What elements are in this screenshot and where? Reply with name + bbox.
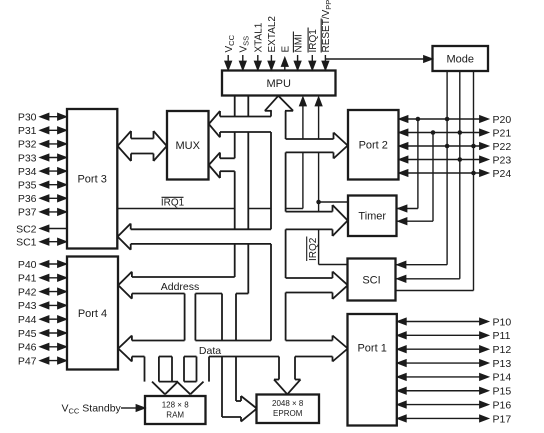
pin VCC with down arrow into MPU xyxy=(224,34,236,70)
SCI box xyxy=(348,259,396,301)
svg-text:IRQ1: IRQ1 xyxy=(161,198,185,209)
svg-text:P15: P15 xyxy=(493,386,512,398)
bus address channel into Port 4 xyxy=(118,272,248,299)
bus double arrow Port 3 to MUX xyxy=(118,131,167,161)
bus vertical channel V1 MPU to address bus xyxy=(235,96,249,294)
Port 4 box xyxy=(67,257,118,370)
node junction dots on port 2 pin lines xyxy=(416,117,476,176)
label IRQ2 rotated with overline xyxy=(307,237,319,262)
svg-text:P34: P34 xyxy=(18,166,37,178)
pin IRQ1 with overline and down arrow into MPU xyxy=(308,28,319,71)
RAM box 128x8 xyxy=(145,396,206,424)
bus arrow into MUX lower (H3) xyxy=(209,153,235,179)
svg-text:Address: Address xyxy=(161,281,200,293)
label IRQ1 with overline xyxy=(161,197,185,208)
svg-text:P20: P20 xyxy=(493,114,512,126)
svg-text:Port 3: Port 3 xyxy=(77,174,106,186)
pin VSS with down arrow into MPU xyxy=(239,36,251,71)
svg-text:Port 1: Port 1 xyxy=(357,343,386,355)
svg-text:Mode: Mode xyxy=(446,53,474,65)
node junction dot on IRQ2 line xyxy=(316,200,321,205)
svg-text:P12: P12 xyxy=(493,344,512,356)
svg-text:P47: P47 xyxy=(18,355,37,367)
wire P20 to Timer input xyxy=(398,119,418,212)
svg-text:P40: P40 xyxy=(18,259,37,271)
wire IRQ2 internal line MPU/Timer/SCI xyxy=(315,97,348,265)
svg-text:SCI: SCI xyxy=(362,274,380,286)
MUX box xyxy=(167,111,209,180)
svg-text:P14: P14 xyxy=(493,372,512,384)
bus channel V5 address bus down to EPROM side arrow xyxy=(222,294,236,418)
bus white fills xyxy=(118,96,348,422)
svg-text:NMI: NMI xyxy=(293,34,304,52)
Mode box xyxy=(433,46,489,71)
bus arrows data to RAM xyxy=(145,357,210,395)
svg-text:P21: P21 xyxy=(493,127,512,139)
pin VCC Standby into RAM xyxy=(62,403,146,416)
svg-text:P35: P35 xyxy=(18,180,37,192)
svg-text:P42: P42 xyxy=(18,286,37,298)
wire IRQ1 internal line from Port 3 to MPU xyxy=(117,97,306,209)
bus arrow into Timer xyxy=(286,205,348,236)
EPROM box 2048x8 xyxy=(257,395,320,424)
svg-text:P23: P23 xyxy=(493,154,512,166)
pin RESET/VPP with overline and down arrow into MPU xyxy=(321,0,333,71)
svg-text:P16: P16 xyxy=(493,399,512,411)
svg-text:MPU: MPU xyxy=(267,78,292,90)
svg-text:P10: P10 xyxy=(493,316,512,328)
pin XTAL1 with down arrow into MPU xyxy=(254,22,265,70)
Port 1 box xyxy=(348,314,397,426)
svg-text:P11: P11 xyxy=(493,330,511,342)
svg-text:EPROM: EPROM xyxy=(273,409,303,418)
bus arrow into SCI xyxy=(286,272,348,300)
svg-text:P31: P31 xyxy=(18,125,37,137)
svg-text:IRQ1: IRQ1 xyxy=(308,29,319,53)
svg-text:P37: P37 xyxy=(18,207,37,219)
Port 2 box xyxy=(348,110,399,180)
U1 MPU box xyxy=(222,71,336,96)
pin NMI with overline and down arrow into MPU xyxy=(293,32,304,71)
wire Mode/P22/P24 to SCI xyxy=(396,71,474,291)
svg-text:P46: P46 xyxy=(18,342,37,354)
svg-text:XTAL1: XTAL1 xyxy=(254,22,265,52)
svg-text:P32: P32 xyxy=(18,139,37,151)
bus arrow into Port 3 right side xyxy=(118,224,271,250)
bus arrow data down to EPROM xyxy=(274,357,301,395)
svg-text:P13: P13 xyxy=(493,358,512,370)
svg-text:Port 4: Port 4 xyxy=(78,308,107,320)
svg-text:P17: P17 xyxy=(493,413,512,425)
pin EXTAL2 with down arrow into MPU xyxy=(267,16,278,71)
svg-text:P45: P45 xyxy=(18,328,37,340)
svg-text:Timer: Timer xyxy=(358,211,386,223)
bus data channel Port 4 to Port 1 xyxy=(118,336,348,362)
svg-text:P41: P41 xyxy=(18,273,37,285)
svg-text:Port 2: Port 2 xyxy=(359,140,388,152)
wire P21 to Timer output xyxy=(398,133,434,225)
svg-text:2048 × 8: 2048 × 8 xyxy=(272,399,304,408)
svg-text:128 × 8: 128 × 8 xyxy=(162,401,189,410)
bus vertical channel V2 with up arrow into MPU xyxy=(265,96,293,341)
bus arrow into Port 2 (H2) xyxy=(286,133,348,159)
svg-text:IRQ2: IRQ2 xyxy=(308,237,319,261)
wire RESET line to Mode box xyxy=(325,55,433,62)
pin E clock output up arrow xyxy=(281,46,292,71)
svg-text:P24: P24 xyxy=(493,168,512,180)
svg-text:SC1: SC1 xyxy=(16,237,37,249)
svg-text:SC2: SC2 xyxy=(16,223,37,235)
wire Mode/P21/P23 to SCI xyxy=(397,71,460,282)
Port 2 pins P20-P24 xyxy=(399,114,512,180)
svg-text:P43: P43 xyxy=(18,300,37,312)
svg-text:MUX: MUX xyxy=(176,140,201,152)
svg-text:P30: P30 xyxy=(18,112,37,124)
bus arrow into EPROM left side xyxy=(222,396,257,422)
svg-text:P22: P22 xyxy=(493,141,512,153)
Port 4 pins P40-P47 xyxy=(18,259,67,368)
Port 1 pins P10-P17 xyxy=(397,316,512,425)
svg-text:P36: P36 xyxy=(18,193,37,205)
svg-text:Data: Data xyxy=(199,345,221,357)
wire Mode/P20/P22 to SCI xyxy=(397,71,448,268)
Port 3 box xyxy=(67,109,117,249)
Timer box xyxy=(348,196,397,237)
bus arrow MPU to MUX upper (H1) xyxy=(209,111,271,137)
svg-text:P44: P44 xyxy=(18,314,37,326)
svg-text:RAM: RAM xyxy=(166,411,184,420)
Port 3 pins P30-P37 SC2 SC1 xyxy=(16,112,67,249)
svg-text:EXTAL2: EXTAL2 xyxy=(267,16,278,53)
bus link channel V4 address-data xyxy=(185,294,196,341)
svg-text:P33: P33 xyxy=(18,152,37,164)
svg-text:E: E xyxy=(281,46,292,53)
